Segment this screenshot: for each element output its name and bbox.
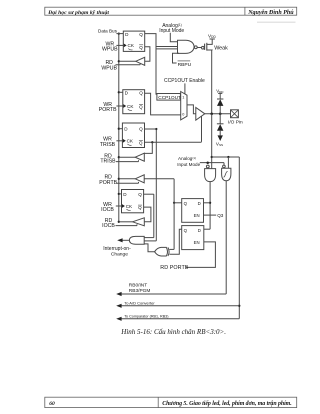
svg-text:CK: CK bbox=[127, 139, 134, 144]
svg-text:IOCB: IOCB bbox=[102, 223, 115, 229]
svg-text:Interrupt-on-: Interrupt-on- bbox=[103, 246, 131, 252]
svg-text:D: D bbox=[125, 91, 129, 96]
svg-text:Input Mode: Input Mode bbox=[177, 162, 200, 167]
svg-text:D: D bbox=[123, 192, 127, 197]
svg-text:IOCB: IOCB bbox=[101, 207, 114, 213]
svg-text:Q: Q bbox=[139, 45, 143, 50]
svg-text:Q: Q bbox=[139, 32, 143, 37]
svg-text:WPUB: WPUB bbox=[101, 65, 117, 71]
svg-text:VDD: VDD bbox=[208, 34, 216, 40]
svg-text:VDD: VDD bbox=[216, 88, 224, 94]
svg-text:RBPU: RBPU bbox=[178, 62, 192, 68]
svg-text:D: D bbox=[198, 228, 201, 233]
svg-text:PORTB: PORTB bbox=[99, 107, 117, 113]
svg-text:Q: Q bbox=[184, 228, 188, 233]
svg-text:PORTB: PORTB bbox=[99, 180, 117, 186]
svg-text:1: 1 bbox=[182, 96, 184, 100]
svg-text:I/O Pin: I/O Pin bbox=[228, 119, 243, 125]
svg-text:To Comparator (RB1, RB3): To Comparator (RB1, RB3) bbox=[124, 315, 168, 319]
svg-text:Q: Q bbox=[139, 126, 143, 131]
svg-text:Analog(1): Analog(1) bbox=[178, 156, 196, 161]
svg-text:Q: Q bbox=[184, 201, 188, 206]
svg-text:CK: CK bbox=[126, 204, 133, 209]
svg-text:Input Mode: Input Mode bbox=[159, 28, 184, 34]
svg-text:Weak: Weak bbox=[214, 46, 228, 52]
svg-text:Q: Q bbox=[139, 140, 143, 145]
svg-text:D: D bbox=[124, 126, 128, 131]
svg-text:Đại học sư phạm kỹ thuật: Đại học sư phạm kỹ thuật bbox=[47, 9, 109, 16]
svg-text:0: 0 bbox=[182, 113, 184, 117]
svg-text:CCP1OUT: CCP1OUT bbox=[158, 95, 181, 101]
svg-text:VSS: VSS bbox=[216, 141, 223, 147]
svg-text:To A/D Converter: To A/D Converter bbox=[124, 301, 155, 306]
svg-text:CK: CK bbox=[127, 104, 134, 109]
svg-text:TRISB: TRISB bbox=[100, 159, 116, 165]
svg-text:Chương 5. Giao tiếp led, led,: Chương 5. Giao tiếp led, led, phím đơn, … bbox=[162, 400, 291, 407]
svg-text:RB3/PGM: RB3/PGM bbox=[129, 288, 151, 294]
svg-text:EN: EN bbox=[194, 240, 200, 245]
svg-text:TRISB: TRISB bbox=[100, 142, 116, 148]
svg-text:RD PORTB: RD PORTB bbox=[160, 265, 189, 271]
svg-text:D: D bbox=[125, 32, 129, 37]
svg-text:CCP1OUT Enable: CCP1OUT Enable bbox=[164, 78, 205, 84]
svg-text:Nguyễn Đình Phú: Nguyễn Đình Phú bbox=[247, 9, 294, 16]
svg-text:Q: Q bbox=[139, 91, 143, 96]
svg-text:Change: Change bbox=[111, 251, 128, 257]
svg-text:60: 60 bbox=[49, 401, 55, 407]
svg-text:D: D bbox=[198, 201, 201, 206]
svg-text:RB0/INT: RB0/INT bbox=[129, 282, 147, 288]
svg-text:Data Bus: Data Bus bbox=[98, 29, 118, 34]
svg-text:WPUB: WPUB bbox=[102, 47, 118, 53]
svg-text:Q: Q bbox=[138, 205, 142, 210]
svg-text:CK: CK bbox=[128, 43, 135, 48]
svg-text:EN: EN bbox=[194, 213, 200, 218]
svg-text:Hình 5-16: Cấu hình chân RB<3:: Hình 5-16: Cấu hình chân RB<3:0>. bbox=[120, 328, 226, 336]
svg-text:Q: Q bbox=[138, 192, 142, 197]
svg-text:Q3: Q3 bbox=[217, 213, 224, 218]
svg-text:Q: Q bbox=[139, 105, 143, 110]
